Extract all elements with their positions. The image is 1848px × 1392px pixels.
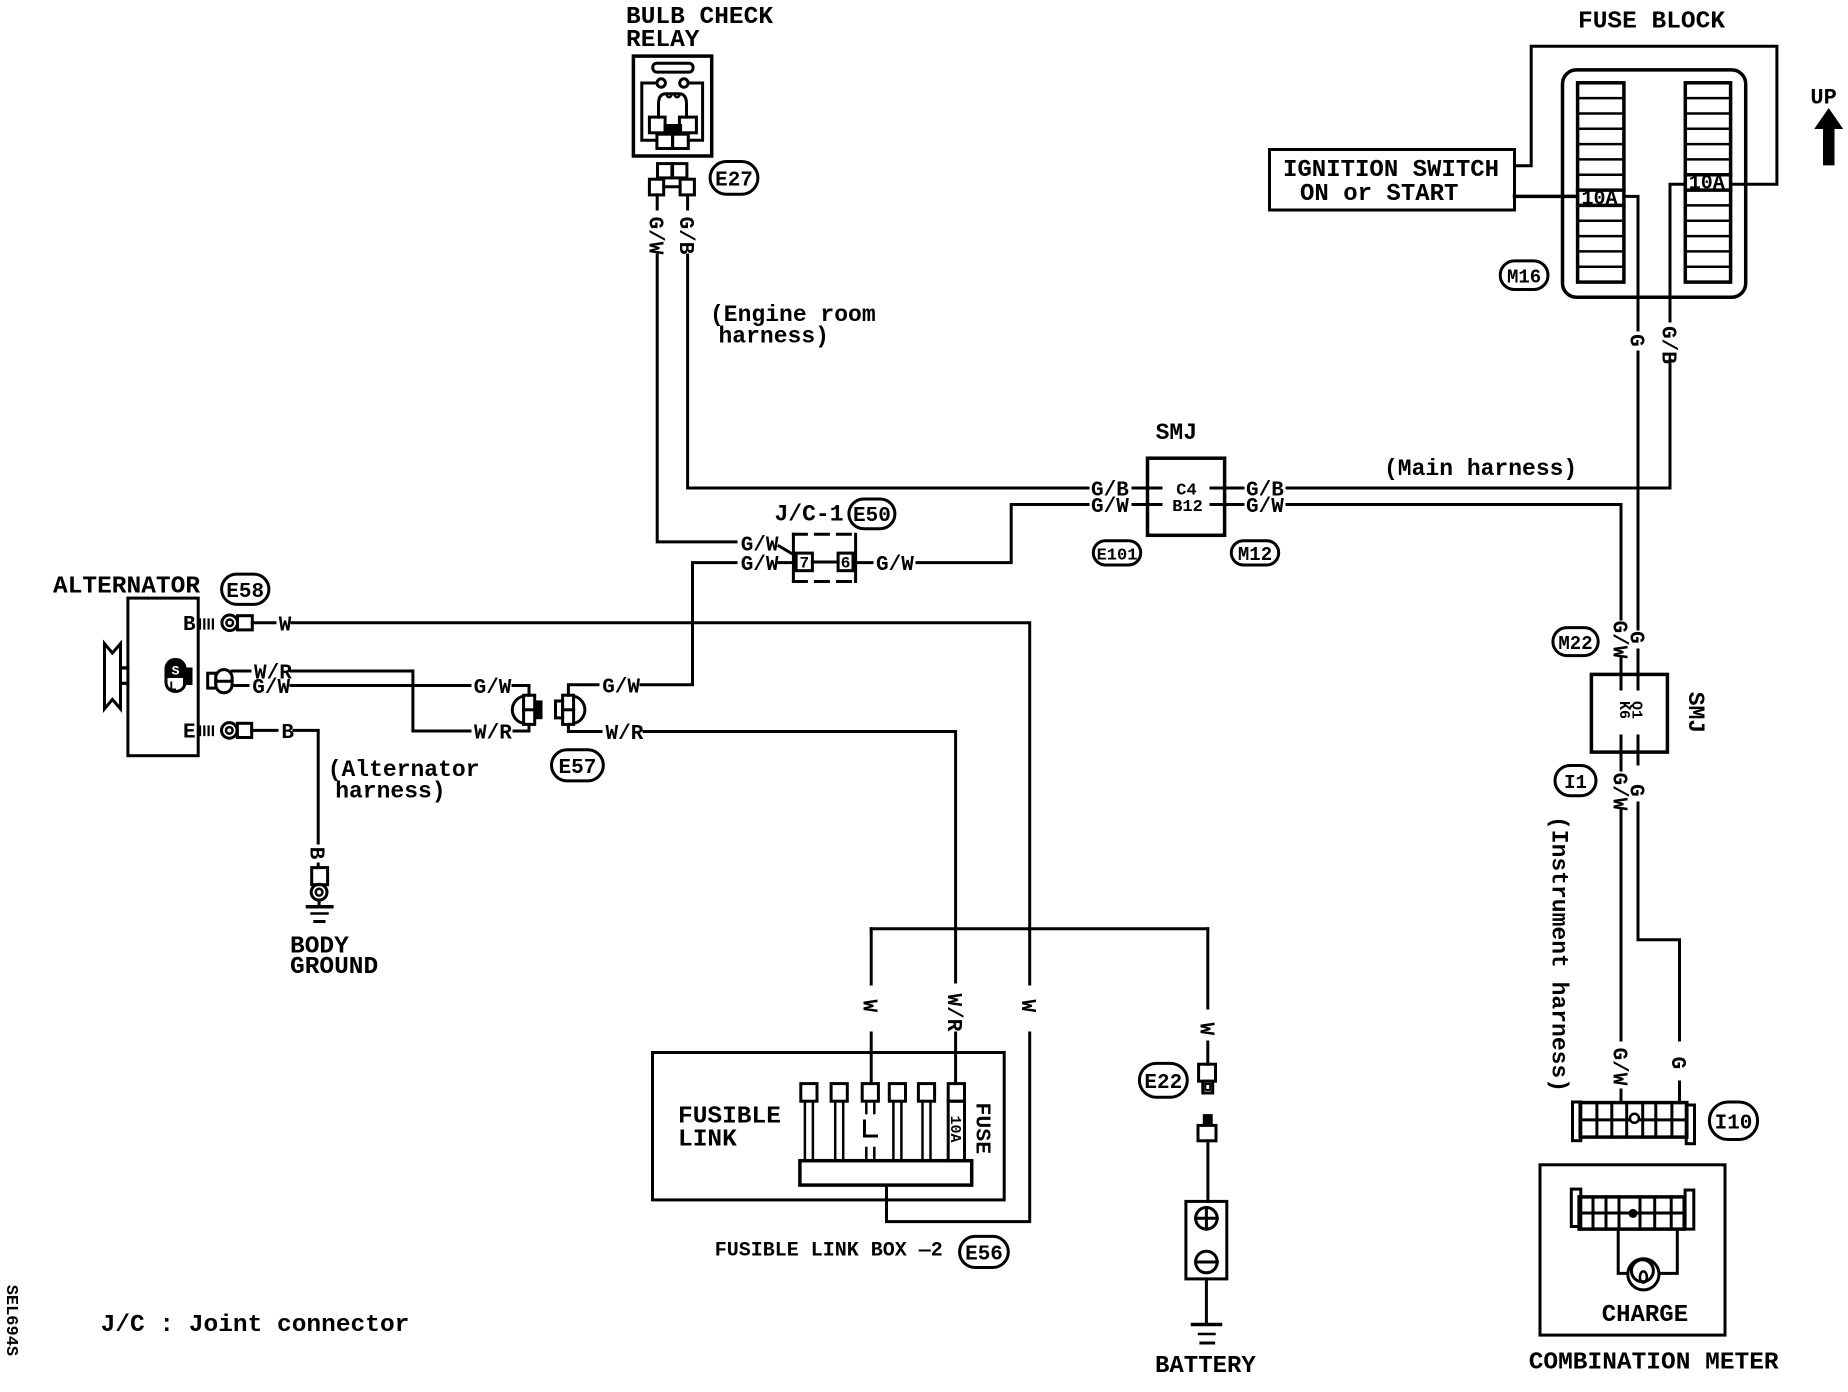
wire G/W from pin 6 to SMJ B12 — [853, 561, 872, 564]
wire G/B from right 10A fuse down to SMJ C4 — [1670, 184, 1685, 321]
svg-text:M22: M22 — [1558, 633, 1592, 655]
fuse block outer boundary wire — [1515, 46, 1777, 184]
wire W/R from E57 female to fusible link — [568, 724, 601, 731]
connector label I10 — [1709, 1102, 1757, 1140]
svg-text:G/W: G/W — [1607, 1048, 1630, 1086]
wire ignition to left 10A fuse — [1515, 195, 1578, 199]
fuse 10A right cell — [1685, 175, 1730, 190]
svg-text:LINK: LINK — [678, 1127, 737, 1154]
relay contact circle left — [657, 79, 665, 87]
combination meter box — [1540, 1165, 1725, 1335]
svg-text:G/W: G/W — [474, 677, 512, 700]
svg-text:B12: B12 — [1172, 498, 1203, 517]
battery — [1186, 1201, 1227, 1279]
wire G from left 10A fuse down — [1624, 196, 1638, 330]
wire G/W hook into J/C-1 pin 7 — [779, 546, 795, 556]
ground symbol — [1193, 1323, 1221, 1327]
connector E27 square top-left — [658, 164, 672, 178]
M22 SMJ box — [1591, 674, 1667, 752]
wire pin7 to pin6 — [812, 561, 838, 564]
wire G/W from M22 SMJ down to I10 — [1620, 810, 1623, 1040]
connector label E27 — [710, 162, 758, 195]
connector label E50 — [849, 499, 895, 529]
relay inner frame left — [642, 83, 657, 140]
UP arrow — [1814, 108, 1843, 165]
relay coil slot — [653, 63, 693, 72]
svg-text:M16: M16 — [1507, 267, 1541, 289]
connector E27 link bar — [664, 185, 680, 188]
connector label E58 — [222, 574, 269, 604]
svg-text:CHARGE: CHARGE — [1602, 1302, 1688, 1329]
svg-text:G: G — [1624, 334, 1647, 347]
wire B from alternator E — [252, 729, 277, 732]
svg-text:G/W: G/W — [602, 676, 640, 699]
relay bulb terminal left — [649, 117, 665, 133]
fuse ladder left — [1578, 83, 1624, 282]
wire W from alternator B — [252, 621, 275, 624]
svg-text:FUSIBLE LINK BOX —2: FUSIBLE LINK BOX —2 — [715, 1240, 943, 1263]
body ground symbol — [308, 905, 332, 909]
svg-text:B: B — [304, 847, 327, 860]
connector E27 square bottom-left — [649, 179, 663, 195]
connector label E57 — [552, 750, 604, 781]
svg-text:BATTERY: BATTERY — [1155, 1353, 1256, 1380]
alternator pulley — [105, 644, 121, 709]
svg-text:SMJ: SMJ — [1156, 420, 1197, 446]
svg-text:L: L — [169, 679, 177, 694]
svg-text:I10: I10 — [1715, 1112, 1753, 1135]
connector I10 strip — [1580, 1103, 1687, 1138]
svg-text:RELAY: RELAY — [626, 27, 700, 54]
svg-text:E50: E50 — [853, 505, 891, 528]
svg-text:COMBINATION METER: COMBINATION METER — [1529, 1350, 1779, 1377]
svg-text:S: S — [172, 664, 180, 679]
relay bulb filament bumps — [667, 94, 680, 97]
svg-text:ON or START: ON or START — [1300, 181, 1458, 208]
svg-text:W/R: W/R — [941, 994, 964, 1032]
svg-text:G/W: G/W — [876, 554, 914, 577]
charge lamp wires — [1618, 1229, 1628, 1273]
wire tick G below M22 box — [1637, 736, 1640, 764]
svg-text:E57: E57 — [558, 757, 596, 780]
terminal E thread — [200, 727, 213, 736]
wire tick G/W into M22 box — [1620, 658, 1623, 689]
svg-text:E22: E22 — [1144, 1072, 1182, 1095]
wire tick G into M22 box — [1637, 650, 1640, 689]
svg-text:SMJ: SMJ — [1682, 692, 1708, 733]
fusible link 1 — [801, 1084, 817, 1102]
svg-text:G/B: G/B — [673, 217, 696, 255]
svg-text:I1: I1 — [1564, 772, 1587, 794]
wire G/W from SMJ B12 to M22 SMJ — [1211, 503, 1243, 506]
svg-text:G/W: G/W — [1091, 496, 1129, 519]
fusible link bus bar — [800, 1161, 972, 1185]
connector label I1 — [1555, 766, 1596, 796]
connector label M12 — [1231, 541, 1278, 565]
fuse 10A in fusible link box — [948, 1084, 964, 1102]
svg-text:SEL694S: SEL694S — [1, 1285, 20, 1356]
relay bulb base black — [664, 124, 682, 134]
fusible link box — [653, 1053, 1005, 1200]
connector label E56 — [960, 1236, 1009, 1267]
svg-text:E56: E56 — [965, 1244, 1003, 1267]
terminal B lug — [238, 616, 253, 630]
svg-text:10A: 10A — [1582, 188, 1618, 211]
svg-text:G/B: G/B — [1656, 326, 1679, 364]
connector label E22 — [1139, 1063, 1187, 1097]
fuse 10A left cell — [1578, 190, 1624, 205]
svg-text:(Main harness): (Main harness) — [1384, 456, 1577, 482]
svg-text:ALTERNATOR: ALTERNATOR — [53, 574, 200, 601]
svg-text:10A: 10A — [946, 1116, 963, 1143]
svg-text:IGNITION SWITCH: IGNITION SWITCH — [1283, 157, 1499, 184]
fusible link 2 — [831, 1084, 847, 1102]
terminal B thread — [200, 620, 213, 629]
wire tick G/W below M22 box — [1620, 736, 1623, 770]
svg-text:Q1: Q1 — [1628, 701, 1645, 719]
fuse ladder right — [1685, 83, 1730, 282]
svg-text:G: G — [1665, 1057, 1688, 1070]
svg-text:W: W — [1015, 1000, 1038, 1013]
wire G from M22 SMJ down to I10 — [1638, 803, 1680, 1040]
svg-text:B: B — [281, 722, 294, 745]
svg-text:G: G — [1624, 784, 1647, 797]
svg-text:W/R: W/R — [474, 723, 512, 746]
wire W/R from S/L connector — [232, 670, 250, 673]
wire G/B from relay to SMJ C4 — [686, 195, 689, 209]
relay bulb terminal right — [679, 117, 696, 133]
svg-text:E58: E58 — [226, 581, 264, 604]
svg-text:W: W — [1193, 1023, 1216, 1036]
relay bulb dome — [659, 94, 687, 117]
wire to battery — [1206, 1141, 1209, 1202]
svg-text:G/W: G/W — [1246, 496, 1284, 519]
svg-text:harness): harness) — [335, 779, 445, 805]
relay outer box — [633, 56, 711, 156]
J/C-1 pin 6 — [838, 553, 853, 571]
svg-text:W/R: W/R — [606, 723, 644, 746]
svg-text:7: 7 — [799, 555, 809, 573]
alternator box — [128, 598, 198, 756]
fusible link 5 — [918, 1084, 934, 1102]
wire battery to ground — [1205, 1279, 1208, 1325]
fusible link 4 — [889, 1084, 905, 1102]
svg-text:10A: 10A — [1689, 173, 1725, 196]
svg-text:J/C : Joint connector: J/C : Joint connector — [101, 1312, 410, 1339]
connector E27 square bottom-right — [680, 179, 694, 195]
svg-text:W: W — [279, 614, 292, 637]
J/C-1 dashed box — [793, 533, 855, 536]
svg-text:G: G — [1624, 631, 1647, 644]
relay lower square left — [657, 134, 673, 148]
terminal E ring — [222, 723, 238, 739]
meter connector strip — [1579, 1197, 1684, 1229]
terminal E lug — [237, 723, 251, 737]
svg-text:B: B — [183, 614, 196, 637]
wire G/W from relay — [656, 195, 659, 209]
svg-text:FUSE: FUSE — [969, 1103, 993, 1155]
wire G/W from E57 female to J/C-1 — [568, 685, 598, 695]
S/L connector plug — [208, 673, 216, 688]
W bus wire to fusible links and battery — [871, 927, 1208, 930]
connector E22 upper half — [1199, 1064, 1216, 1081]
terminal S black plug — [166, 660, 185, 676]
E57 female connector — [556, 701, 563, 718]
svg-text:G/W: G/W — [741, 554, 779, 577]
connector label M22 — [1553, 628, 1598, 656]
svg-text:G/W: G/W — [252, 677, 290, 700]
connector label M16 — [1500, 261, 1548, 290]
SMJ C4 B12 box — [1148, 458, 1225, 535]
svg-text:harness): harness) — [719, 324, 829, 350]
svg-text:E: E — [183, 722, 196, 745]
svg-text:M12: M12 — [1238, 544, 1272, 566]
relay contact circle right — [680, 79, 688, 87]
connector E27 square top-right — [673, 164, 687, 178]
body ground terminal — [312, 868, 328, 885]
svg-text:GROUND: GROUND — [290, 954, 378, 981]
svg-text:UP: UP — [1810, 86, 1836, 111]
wire G/W from S/L connector — [232, 684, 248, 687]
relay lower square right — [673, 134, 689, 148]
fusible link 3 empty socket — [862, 1084, 878, 1102]
svg-text:W: W — [857, 1000, 880, 1013]
alternator shaft — [121, 668, 128, 684]
wire G/W from E57 up into J/C-1 pin 7 — [641, 563, 736, 685]
svg-text:6: 6 — [841, 555, 851, 573]
svg-text:FUSE BLOCK: FUSE BLOCK — [1578, 9, 1725, 36]
svg-text:E101: E101 — [1097, 546, 1138, 565]
svg-text:(Instrument harness): (Instrument harness) — [1545, 816, 1571, 1092]
E57 male connector — [512, 696, 523, 723]
svg-text:E27: E27 — [715, 169, 753, 192]
fuse block body — [1563, 70, 1746, 297]
terminal B ring — [222, 615, 238, 631]
ignition switch box — [1270, 150, 1515, 211]
charge lamp — [1628, 1259, 1659, 1290]
wire W down to E22 — [1206, 929, 1209, 1008]
svg-text:J/C-1: J/C-1 — [775, 502, 844, 528]
svg-text:G/W: G/W — [643, 217, 666, 255]
J/C-1 pin 7 — [796, 553, 812, 571]
relay inner frame right — [688, 83, 703, 140]
connector E22 lower half — [1203, 1114, 1213, 1125]
connector label E101 — [1093, 541, 1140, 565]
